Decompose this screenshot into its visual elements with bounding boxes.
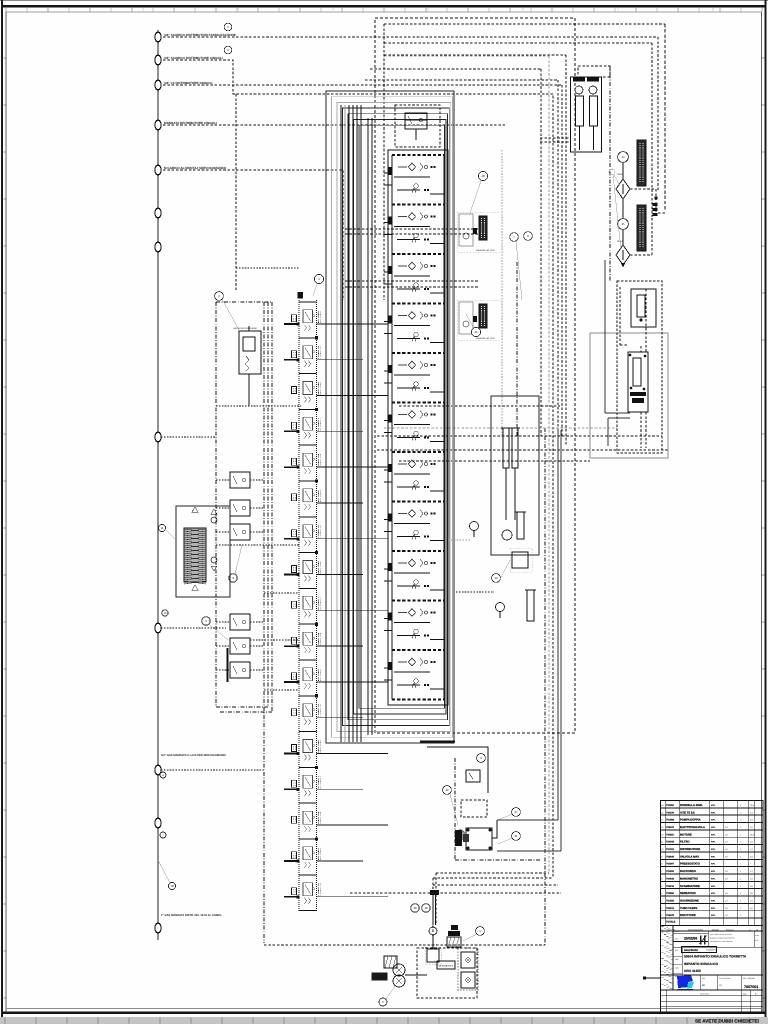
- svg-text:1" GAS MANDATA DISTR. DIS. OLI: 1" GAS MANDATA DISTR. DIS. OLIO AL COMPL…: [161, 914, 223, 917]
- svg-text:12: 12: [661, 833, 663, 836]
- svg-text:CON.: CON.: [675, 967, 680, 970]
- svg-text:31: 31: [514, 834, 518, 838]
- svg-text:KPL: KPL: [711, 819, 716, 822]
- svg-text:25/02/98: 25/02/98: [684, 937, 697, 941]
- svg-text:SE AVETE DUBBI CHIEDETE!: SE AVETE DUBBI CHIEDETE!: [695, 1018, 760, 1023]
- svg-text:24: 24: [621, 155, 625, 159]
- svg-text:700561: 700561: [666, 833, 675, 836]
- svg-text:702997: 702997: [666, 863, 675, 866]
- svg-text:KPL: KPL: [711, 848, 716, 851]
- svg-text:1250: 1250: [675, 938, 679, 941]
- svg-text:DENOMINAZIONE: DENOMINAZIONE: [688, 929, 704, 932]
- svg-text:KPL: KPL: [711, 870, 716, 873]
- svg-text:KPL: KPL: [711, 826, 716, 829]
- svg-text:KPL: KPL: [711, 863, 716, 866]
- svg-text:GRU 41250: GRU 41250: [684, 969, 701, 973]
- svg-text:MANEGG. AR. PEN: MANEGG. AR. PEN: [476, 337, 495, 340]
- svg-text:5: 5: [661, 885, 662, 888]
- svg-text:13: 13: [661, 826, 663, 829]
- svg-text:10: 10: [661, 848, 663, 851]
- svg-text:POMPA DOPPIA: POMPA DOPPIA: [680, 819, 701, 822]
- svg-text:KPL: KPL: [711, 841, 716, 844]
- svg-text:KPL: KPL: [711, 899, 716, 902]
- svg-text:COMMESSA: COMMESSA: [706, 949, 718, 952]
- svg-text:3/4" SCARICO DISTRIBUTORE CING: 3/4" SCARICO DISTRIBUTORE CINGOLI: [164, 56, 223, 60]
- svg-text:23: 23: [494, 576, 498, 580]
- svg-text:KPL: KPL: [711, 804, 716, 807]
- svg-text:4: 4: [661, 892, 662, 895]
- svg-text:3/4" GAS MANDATA A LAVA PER SE: 3/4" GAS MANDATA A LAVA PER SERVOCOMANDI: [161, 754, 226, 757]
- svg-text:3/4" LS DISTRIBUTORE CINGOLI: 3/4" LS DISTRIBUTORE CINGOLI: [164, 81, 212, 85]
- svg-text:15: 15: [163, 611, 167, 615]
- svg-text:45: 45: [474, 330, 478, 334]
- svg-text:IMPIANTO IDRAULICO: IMPIANTO IDRAULICO: [684, 962, 719, 966]
- svg-text:700913: 700913: [666, 907, 675, 910]
- svg-text:9: 9: [661, 855, 662, 858]
- svg-text:701556: 701556: [666, 899, 675, 902]
- svg-text:18: 18: [170, 884, 174, 888]
- svg-text:Rev.: Rev.: [702, 977, 706, 980]
- svg-text:Tutti i diritti riservati a te: Tutti i diritti riservati a termini: [710, 933, 733, 936]
- svg-text:DIS.: DIS.: [675, 949, 679, 952]
- svg-text:TUBO FLESS.: TUBO FLESS.: [680, 907, 698, 910]
- svg-text:KPL: KPL: [711, 914, 716, 917]
- svg-text:5060A IMPIANTO IDRAULICO TORRE: 5060A IMPIANTO IDRAULICO TORRETTA: [684, 955, 747, 959]
- svg-text:703075: 703075: [666, 914, 675, 917]
- svg-text:702451: 702451: [666, 804, 675, 807]
- svg-text:e divulgazione - vedi clausola: e divulgazione - vedi clausola: [710, 940, 733, 943]
- svg-text:descrizione: descrizione: [700, 993, 709, 996]
- svg-text:F.to A3 Rif.tavo: F.to A3 Rif.tavo: [719, 977, 730, 980]
- svg-text:COD. DISEGNO: COD. DISEGNO: [743, 977, 756, 980]
- svg-text:VALVOLA MAX: VALVOLA MAX: [680, 855, 699, 858]
- svg-text:702205: 702205: [666, 841, 675, 844]
- svg-text:702684: 702684: [666, 892, 675, 895]
- svg-text:MOTORE: MOTORE: [680, 833, 692, 836]
- svg-text:di legge e vietata la riproduz: di legge e vietata la riproduzione: [710, 937, 735, 940]
- svg-text:ELETTROVALVOLA: ELETTROVALVOLA: [680, 826, 705, 829]
- svg-text:RIDUTTORE: RIDUTTORE: [680, 914, 696, 917]
- svg-text:1: 1: [661, 914, 662, 917]
- svg-text:16: 16: [661, 804, 663, 807]
- svg-text:KPL: KPL: [711, 885, 716, 888]
- svg-text:703219: 703219: [666, 885, 675, 888]
- svg-text:TOTALE: TOTALE: [666, 921, 676, 924]
- svg-text:37: 37: [514, 810, 518, 814]
- svg-text:KPL: KPL: [711, 877, 716, 880]
- svg-text:KPL: KPL: [711, 907, 716, 910]
- svg-text:702376: 702376: [666, 811, 675, 814]
- svg-text:FILTRO: FILTRO: [680, 841, 690, 844]
- svg-text:GB PIANETTO S.: GB PIANETTO S.: [439, 965, 455, 968]
- svg-text:SCAMBIATORE: SCAMBIATORE: [680, 885, 700, 888]
- svg-text:SALFRANI: SALFRANI: [684, 949, 698, 952]
- svg-text:703412: 703412: [666, 826, 675, 829]
- svg-text:7: 7: [661, 870, 662, 873]
- svg-text:RACCORDO: RACCORDO: [680, 870, 696, 873]
- svg-text:40: 40: [481, 174, 485, 178]
- svg-text:data: data: [743, 993, 747, 996]
- svg-text:SERBATOIO: SERBATOIO: [680, 892, 696, 895]
- svg-text:3: 3: [661, 899, 662, 902]
- svg-text:701133: 701133: [666, 848, 675, 851]
- svg-text:11: 11: [161, 526, 164, 530]
- svg-text:KPL: KPL: [711, 855, 716, 858]
- svg-text:701802: 701802: [666, 870, 675, 873]
- svg-text:11: 11: [661, 841, 663, 844]
- svg-text:700428: 700428: [666, 877, 675, 880]
- svg-text:KPL: KPL: [711, 833, 716, 836]
- svg-text:MANDATA DISTRIBUTORE CINGOLI: MANDATA DISTRIBUTORE CINGOLI: [164, 121, 217, 125]
- svg-text:703640: 703640: [666, 855, 675, 858]
- svg-text:LIMITATORE PRESSIONE: LIMITATORE PRESSIONE: [233, 327, 258, 330]
- svg-text:6: 6: [661, 877, 662, 880]
- svg-text:3/4" SCARICO DISTRIBUTORI STAB: 3/4" SCARICO DISTRIBUTORI STABILIZZAZION…: [164, 33, 236, 37]
- svg-text:38: 38: [413, 906, 417, 910]
- svg-text:701988: 701988: [666, 819, 675, 822]
- svg-text:RONDELLA ZIGR.: RONDELLA ZIGR.: [680, 804, 703, 807]
- svg-text:40: 40: [424, 906, 428, 910]
- svg-text:8: 8: [661, 863, 662, 866]
- svg-text:42: 42: [445, 788, 449, 792]
- svg-text:MANEGG. AR. PEN: MANEGG. AR. PEN: [476, 249, 495, 252]
- svg-text:VER.: VER.: [675, 958, 679, 961]
- svg-text:PRESSOSTATO: PRESSOSTATO: [680, 863, 700, 866]
- svg-text:MANOMETRO: MANOMETRO: [680, 877, 698, 880]
- svg-text:VITE TE 8.8: VITE TE 8.8: [680, 811, 695, 814]
- svg-text:KPL: KPL: [711, 811, 716, 814]
- svg-text:DISTRIBUTORE: DISTRIBUTORE: [680, 848, 700, 851]
- svg-text:GUARNIZIONE: GUARNIZIONE: [680, 899, 699, 902]
- svg-text:25: 25: [621, 222, 625, 226]
- svg-text:15: 15: [661, 811, 663, 814]
- svg-text:14: 14: [661, 819, 663, 822]
- svg-text:7007001: 7007001: [744, 985, 758, 989]
- svg-text:2: 2: [661, 907, 662, 910]
- svg-text:KPL: KPL: [711, 892, 716, 895]
- svg-text:M CARICO AL MONTAJ SERVOCOMAND: M CARICO AL MONTAJ SERVOCOMANDO: [164, 166, 227, 170]
